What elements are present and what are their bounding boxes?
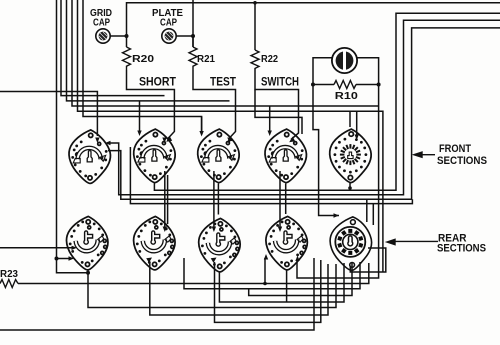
- switch S6: [66, 216, 107, 270]
- wire: S3 to S8 contact pair: [213, 171, 215, 229]
- wire: R10 right link: [356, 84, 379, 86]
- wire: left bundle line 2: [61, 0, 165, 96]
- switch S2: [134, 129, 175, 183]
- wire: right nested line 2: [107, 20, 500, 195]
- svg-text:SWITCH: SWITCH: [261, 77, 299, 89]
- grid cap jack J1: [96, 29, 110, 43]
- wire: right nested line 1: [154, 13, 500, 190]
- switch S10: [330, 217, 371, 271]
- wire: bus drop to S4 upper left: [269, 106, 271, 131]
- wire: bus drop to S3 upper left: [201, 117, 203, 132]
- svg-text:TEST: TEST: [210, 77, 236, 89]
- wire: S3 tip to S8 tip: [217, 183, 219, 214]
- wire: S8 right chain: [249, 262, 352, 296]
- switch S9: [266, 216, 307, 270]
- wire: top bus line: [127, 3, 500, 36]
- wire: S5 bottom tip link: [349, 182, 351, 188]
- wire: R10 left link: [313, 84, 334, 86]
- wire: S10 top contact drop 2: [372, 204, 374, 225]
- wire: lamp left rail: [313, 58, 339, 216]
- wire: lamp right rail: [297, 58, 379, 278]
- wire: left bundle line 6: [83, 0, 202, 132]
- resistor R21: [189, 47, 197, 70]
- plate cap jack J2: [162, 29, 176, 43]
- switch S5: [330, 129, 371, 183]
- wire: R20 lower lead and short bracket: [127, 70, 175, 139]
- wire: right nested line 3: [108, 28, 500, 199]
- wire: S5 top tip link: [349, 111, 351, 127]
- wire: left bundle line 4: [72, 0, 379, 106]
- svg-text:R21: R21: [197, 53, 215, 65]
- wire: mid band bus 4: [130, 147, 412, 204]
- svg-text:R10: R10: [335, 90, 358, 102]
- resistor R22: [251, 50, 259, 69]
- wire: bus drop to S2 upper left: [139, 101, 141, 131]
- wire: plate cap lead: [176, 36, 193, 47]
- wire: S10 top contact drop 1: [366, 199, 368, 222]
- wire: R23 long line: [18, 263, 369, 284]
- svg-text:FRONT: FRONT: [439, 143, 471, 155]
- wire: R22 branch to S4 upper right: [255, 90, 302, 135]
- svg-text:R20: R20: [132, 53, 154, 65]
- arrow to rear sections: [387, 239, 438, 244]
- wire: S7 right lead chain: [184, 258, 360, 289]
- resistor R10: [334, 81, 356, 89]
- switch S3: [198, 129, 239, 183]
- svg-text:SECTIONS: SECTIONS: [437, 155, 487, 167]
- wire: left bundle line 1: [57, 0, 89, 273]
- wire: S2 to S7 contact pair: [164, 171, 166, 229]
- wire: S4 to S9 contact pair: [279, 171, 281, 229]
- wire: bottom long line: [0, 258, 314, 330]
- wire: grid cap lead: [110, 36, 126, 47]
- resistor R23: [0, 280, 18, 288]
- switch S4: [265, 129, 306, 183]
- wire: S8 tip chain: [219, 263, 344, 302]
- wire: S6 bottom tip chain: [88, 264, 336, 308]
- svg-text:R23: R23: [0, 268, 18, 280]
- svg-text:CAP: CAP: [93, 17, 110, 29]
- wire: left bundle line 5: [78, 0, 383, 272]
- wire: S4 tip to S9 tip: [285, 183, 287, 214]
- svg-text:R22: R22: [261, 53, 278, 65]
- switch S1: [69, 130, 110, 184]
- svg-text:SHORT: SHORT: [139, 77, 176, 89]
- svg-text:SECTIONS: SECTIONS: [437, 243, 486, 255]
- wire: S5 interior entry: [356, 111, 358, 136]
- wire: R21 top lead to top edge: [192, 0, 194, 47]
- svg-text:CAP: CAP: [160, 17, 177, 29]
- wire: S10 right contact to bottom tip loop: [350, 248, 386, 272]
- resistor R20: [123, 47, 131, 70]
- wire: R21 lower lead and test bracket: [193, 70, 236, 139]
- wire: S9 left contact drop: [264, 258, 266, 284]
- arrow to front sections: [414, 152, 435, 157]
- switch S7: [134, 216, 175, 270]
- wire: R22 lower lead and switch bracket: [255, 69, 299, 140]
- wire: R22 top lead: [254, 3, 256, 50]
- wire: S8 left lead chain: [215, 260, 321, 322]
- wire: bundle junction to S6 lower contact: [57, 258, 72, 260]
- neon lamp DS1: [332, 48, 357, 73]
- wire: left bundle line 3: [67, 0, 230, 101]
- wire: bus into S1: [0, 92, 97, 137]
- entry arrowheads into switches: [69, 131, 359, 263]
- switch S8: [199, 218, 240, 272]
- wire: left wire to S6 upper contact: [0, 247, 74, 249]
- wire: S7 left lead chain: [150, 262, 328, 315]
- wire: S9 tip link: [286, 270, 288, 302]
